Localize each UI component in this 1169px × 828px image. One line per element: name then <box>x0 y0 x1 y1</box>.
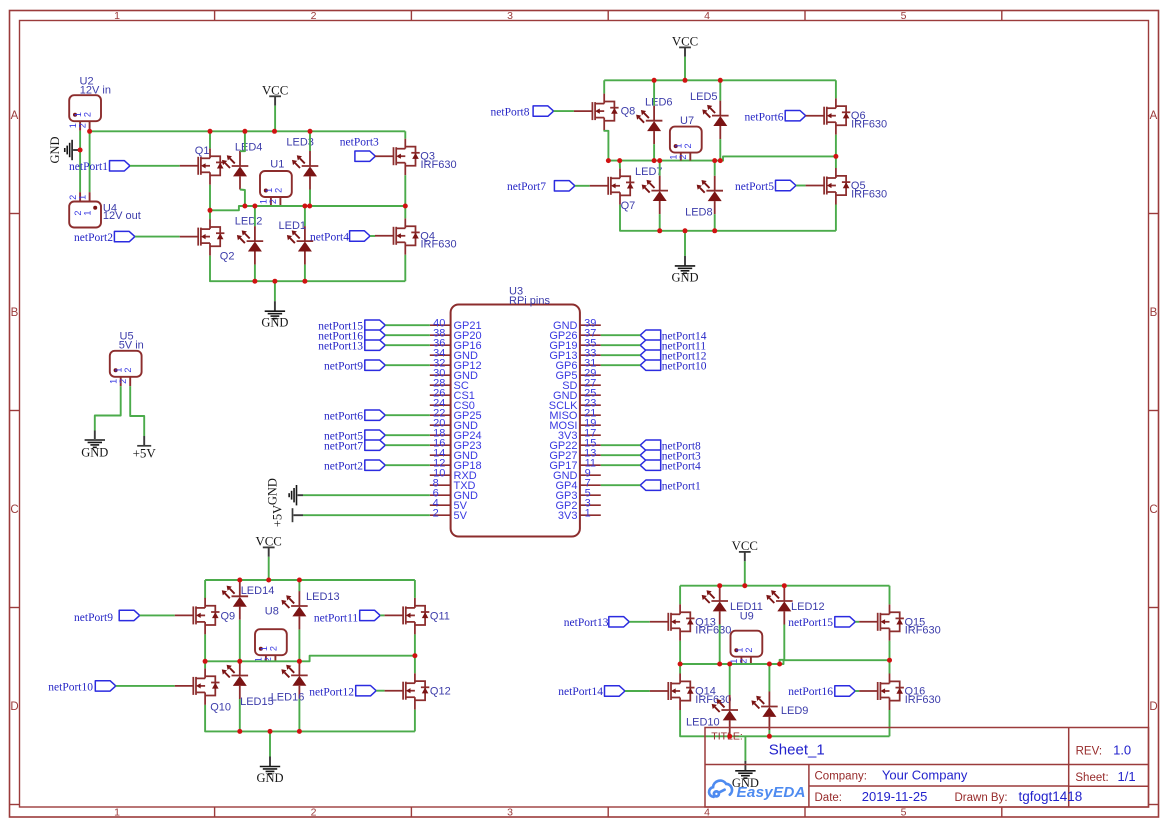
svg-text:LED10: LED10 <box>686 716 720 728</box>
pin 16 U3 <box>430 444 451 446</box>
wire top bus A <box>90 130 406 132</box>
wire LED3 top <box>309 131 311 151</box>
connector U1 body <box>260 171 292 197</box>
wire Q3 source down <box>404 175 406 206</box>
svg-text:C: C <box>1149 504 1157 516</box>
svg-text:2: 2 <box>739 659 749 664</box>
wire netPort8 to U3 <box>601 444 640 446</box>
pin 15 U3 <box>580 444 601 446</box>
power flag +5V left of U3 <box>294 514 304 516</box>
junction VCC tap A <box>272 129 277 134</box>
LED LED13 <box>291 591 308 630</box>
svg-text:C: C <box>10 504 18 516</box>
junction LED7 bottom <box>657 228 662 233</box>
svg-text:5V: 5V <box>454 510 468 522</box>
svg-text:LED9: LED9 <box>781 705 809 717</box>
svg-text:netPort13: netPort13 <box>318 340 363 352</box>
svg-text:IRF630: IRF630 <box>905 694 941 706</box>
wire netPort11 to Q11 gate <box>380 614 384 616</box>
ground cluster D <box>269 731 271 756</box>
wire netPort10 to U3 <box>601 364 640 366</box>
svg-text:netPort4: netPort4 <box>662 460 701 472</box>
junction bus start <box>87 129 92 134</box>
LED LED1 <box>297 226 314 265</box>
pin 25 U3 <box>580 394 601 396</box>
pin 3 U3 <box>580 504 601 506</box>
pin 22 U3 <box>430 414 451 416</box>
junction LED12 bottom <box>777 662 782 667</box>
svg-text:netPort6: netPort6 <box>745 112 784 124</box>
svg-text:1: 1 <box>77 195 87 200</box>
wire netPort8 to Q8 gate <box>554 110 574 112</box>
svg-text:2: 2 <box>118 379 128 384</box>
svg-text:U9: U9 <box>740 610 754 622</box>
wire netPort5 to Q5 gate <box>796 185 806 187</box>
wire LED7 top lead <box>659 161 661 176</box>
wire middle bus A <box>210 206 405 210</box>
wire LED4 top jog <box>240 131 245 151</box>
transistor Q5 <box>806 168 851 205</box>
svg-text:netPort4: netPort4 <box>310 231 349 243</box>
junction LED16 bottom <box>297 729 302 734</box>
svg-text:netPort12: netPort12 <box>309 686 354 698</box>
net flag netPort14 <box>640 330 661 340</box>
junction Q1 drain at bus <box>208 129 213 134</box>
pin 31 U3 <box>580 364 601 366</box>
svg-text:GND: GND <box>671 271 698 285</box>
svg-text:2019-11-25: 2019-11-25 <box>862 789 928 804</box>
wire Q15 source down <box>889 641 891 660</box>
transistor Q9 <box>175 598 220 635</box>
transistor Q6 <box>806 98 851 135</box>
junction LED5 top <box>718 78 723 83</box>
svg-text:D: D <box>1149 701 1157 713</box>
wire Q16 drain up <box>889 660 891 673</box>
pin 5 U3 <box>580 494 601 496</box>
svg-text:IRF630: IRF630 <box>695 694 731 706</box>
net flag netPort3 <box>355 151 376 161</box>
LED LED10 <box>721 695 738 734</box>
LED LED11 <box>711 586 728 625</box>
wire Q12 drain up <box>414 656 416 674</box>
svg-text:Q7: Q7 <box>621 200 636 212</box>
junction LED4 top <box>242 129 247 134</box>
svg-text:Q12: Q12 <box>430 685 451 697</box>
svg-text:Date:: Date: <box>815 792 843 804</box>
svg-text:netPort10: netPort10 <box>48 681 93 693</box>
wire LED2 top lead <box>254 206 256 226</box>
junction Q6 source node <box>833 154 838 159</box>
pin 19 U3 <box>580 424 601 426</box>
svg-text:Q10: Q10 <box>210 701 231 713</box>
wire netPort3 to U3 <box>601 454 640 456</box>
IC U3 RPi pins <box>451 305 580 537</box>
junction LED6 top <box>652 78 657 83</box>
wire netPort11 to U3 <box>601 344 640 346</box>
net flag netPort5 <box>776 180 797 190</box>
wire Q11 source down <box>414 634 416 655</box>
svg-text:1: 1 <box>669 155 679 160</box>
connector U2 body <box>69 95 101 121</box>
pin 35 U3 <box>580 344 601 346</box>
pin 20 U3 <box>430 424 451 426</box>
net flag netPort10 <box>95 681 116 691</box>
pin 28 U3 <box>430 384 451 386</box>
junction VCC tap B <box>683 78 688 83</box>
junction LED12 top <box>782 583 787 588</box>
svg-text:GND: GND <box>261 316 288 330</box>
pin 17 U3 <box>580 434 601 436</box>
wire netPort9 to Q9 gate <box>140 614 175 616</box>
svg-text:netPort13: netPort13 <box>564 617 609 629</box>
ground cluster E <box>744 736 746 761</box>
net flag netPort6 <box>365 410 386 420</box>
svg-text:1: 1 <box>734 647 744 652</box>
wire netPort15 to U3 <box>385 324 430 326</box>
junction LED8 top <box>712 158 717 163</box>
svg-text:netPort3: netPort3 <box>340 137 379 149</box>
net flag netPort11 <box>360 610 381 620</box>
wire U2 pin2 to U4 pin1 <box>89 131 91 193</box>
net flag netPort16 <box>365 330 386 340</box>
wire Q3 drain drop <box>404 131 406 138</box>
wire top bus B <box>604 79 836 81</box>
wire LED9 bottom lead <box>768 730 770 736</box>
wire Q1 source down <box>209 185 211 211</box>
svg-text:3: 3 <box>507 10 513 22</box>
svg-text:1: 1 <box>68 123 78 128</box>
junction Q11 source node <box>412 653 417 658</box>
svg-text:LED14: LED14 <box>241 585 275 597</box>
svg-text:Drawn By:: Drawn By: <box>955 792 1008 804</box>
wire netPort10 to Q10 gate <box>116 685 175 687</box>
net flag netPort7 <box>365 440 386 450</box>
svg-text:Q8: Q8 <box>621 105 636 117</box>
wire netPort16 to Q16 gate <box>855 690 859 692</box>
svg-text:Q9: Q9 <box>221 611 236 623</box>
wire netPort12 to U3 <box>601 354 640 356</box>
svg-text:1: 1 <box>73 112 83 117</box>
junction LED9 top <box>767 662 772 667</box>
LED LED14 <box>232 581 249 620</box>
svg-text:Q2: Q2 <box>220 251 235 263</box>
svg-text:5: 5 <box>901 807 907 819</box>
transistor Q1 <box>180 148 225 185</box>
svg-text:netPort5: netPort5 <box>735 181 774 193</box>
wire LED14 top lead <box>239 580 241 581</box>
net flag netPort15 <box>365 320 386 330</box>
wire LED10 top lead <box>729 664 731 695</box>
wire LED2 bottom lead <box>254 265 256 282</box>
wire bottom bus E <box>680 710 889 736</box>
net flag netPort4 <box>350 231 371 241</box>
LED LED4 <box>232 151 249 190</box>
transistor Q8 <box>574 94 619 131</box>
wire netPort6 to U3 <box>385 414 430 416</box>
net flag netPort9 <box>119 610 140 620</box>
LED LED15 <box>232 661 249 700</box>
svg-text:2: 2 <box>683 143 693 148</box>
ground cluster B <box>684 231 686 256</box>
svg-text:LED12: LED12 <box>791 601 825 613</box>
svg-text:netPort9: netPort9 <box>74 612 113 624</box>
net flag netPort1 <box>640 480 661 490</box>
wire U2 pin1 to U4 pin2 <box>79 131 81 193</box>
wire Q9 source down <box>204 634 206 661</box>
connector U7 body <box>670 127 702 153</box>
wire netPort16 to U3 <box>385 334 430 336</box>
svg-text:GND: GND <box>81 446 108 460</box>
wire Q9 drain drop <box>204 580 206 598</box>
wire middle bus B <box>608 156 836 160</box>
svg-text:Sheet:: Sheet: <box>1075 772 1108 784</box>
junction LED13 top <box>297 578 302 583</box>
wire netPort13 to Q13 gate <box>629 621 650 623</box>
svg-text:IRF630: IRF630 <box>851 119 887 131</box>
junction LED4 bottom <box>242 204 247 209</box>
svg-text:IRF630: IRF630 <box>905 625 941 637</box>
junction LED15 bottom <box>237 729 242 734</box>
junction LED3 top <box>308 129 313 134</box>
wire LED11 bottom lead <box>719 625 721 665</box>
junction LED11 top <box>717 583 722 588</box>
svg-text:1/1: 1/1 <box>1118 769 1136 784</box>
wire netPort5 to U3 <box>385 434 430 436</box>
svg-text:netPort15: netPort15 <box>788 617 833 629</box>
wire Q6 source down <box>835 135 837 157</box>
pin 27 U3 <box>580 384 601 386</box>
wire Q1 drain to bus <box>209 131 211 138</box>
LED LED12 <box>776 586 793 625</box>
svg-text:LED5: LED5 <box>690 91 718 103</box>
wire netPort9 to U3 <box>385 364 430 366</box>
EasyEDA logo <box>709 781 805 801</box>
wire LED14 bottom lead <box>239 620 241 661</box>
net flag netPort2 <box>114 231 134 241</box>
svg-text:1: 1 <box>114 807 120 819</box>
svg-text:netPort8: netPort8 <box>491 107 530 119</box>
connector U9 body <box>731 631 763 657</box>
svg-text:3V3: 3V3 <box>558 510 578 522</box>
transistor Q7 <box>590 168 635 205</box>
svg-text:RPi pins: RPi pins <box>509 295 550 307</box>
wire LED4 bottom jog <box>240 190 245 207</box>
svg-text:1: 1 <box>83 210 93 215</box>
wire Q4 source down <box>404 255 406 281</box>
junction Q1 source node <box>208 208 213 213</box>
svg-text:1: 1 <box>259 646 269 651</box>
pin 34 U3 <box>430 354 451 356</box>
wire netPort14 to U3 <box>601 334 640 336</box>
ground left of U3 <box>298 494 304 496</box>
transistor Q2 <box>180 219 225 256</box>
pin 9 U3 <box>580 474 601 476</box>
svg-text:2: 2 <box>68 195 78 200</box>
pin 40 U3 <box>430 324 451 326</box>
wire netPort2 to Q2 gate <box>135 236 180 238</box>
wire Q4 drain up <box>404 206 406 218</box>
wire LED12 bottom jog <box>780 625 785 665</box>
wire netPort7 to Q7 gate <box>575 185 590 187</box>
pin 10 U3 <box>430 474 451 476</box>
svg-text:netPort1: netPort1 <box>662 480 701 492</box>
svg-text:A: A <box>1150 110 1158 122</box>
wire netPort4 to Q4 gate <box>370 235 375 237</box>
wire LED13 top lead <box>298 580 300 591</box>
svg-text:EasyEDA: EasyEDA <box>737 784 806 801</box>
wire LED1 bottom lead <box>304 265 306 282</box>
junction LED10 top <box>727 662 732 667</box>
svg-text:Q1: Q1 <box>195 145 210 157</box>
wire bottom bus D <box>205 705 415 732</box>
svg-text:12V out: 12V out <box>103 210 141 222</box>
svg-text:1: 1 <box>114 368 124 373</box>
wire netPort7 to U3 <box>385 444 430 446</box>
LED LED3 <box>302 151 319 190</box>
wire netPort14 to Q14 gate <box>625 690 650 692</box>
pin 33 U3 <box>580 354 601 356</box>
junction LED10 bottom <box>727 734 732 739</box>
wire Q8 source jog down <box>604 130 608 161</box>
wire Q12 source down <box>414 710 416 732</box>
net flag netPort3 <box>640 450 661 460</box>
connector U4 body <box>69 202 101 228</box>
junction LED5 bottom <box>718 158 723 163</box>
net flag netPort12 <box>356 686 377 696</box>
transistor Q15 <box>859 604 904 641</box>
net flag netPort13 <box>365 340 386 350</box>
net flag netPort13 <box>609 617 630 627</box>
svg-text:U8: U8 <box>265 606 279 618</box>
LED LED8 <box>706 176 723 215</box>
svg-text:VCC: VCC <box>672 35 698 49</box>
net flag netPort4 <box>640 460 661 470</box>
pin 4 U3 <box>430 504 451 506</box>
LED LED2 <box>247 226 264 265</box>
svg-text:LED1: LED1 <box>279 220 307 232</box>
pin 14 U3 <box>430 454 451 456</box>
wire top bus E <box>680 585 889 587</box>
svg-text:IRF630: IRF630 <box>421 159 457 171</box>
svg-text:GND: GND <box>265 478 279 505</box>
wire Q16 source down <box>889 710 891 736</box>
junction LED8 bottom <box>712 228 717 233</box>
svg-text:VCC: VCC <box>732 539 758 553</box>
wire LED10 bottom lead <box>729 734 731 737</box>
wire GND rail to pin6 <box>303 494 430 496</box>
svg-text:netPort7: netPort7 <box>507 181 546 193</box>
svg-text:REV:: REV: <box>1076 745 1102 757</box>
pin 12 U3 <box>430 464 451 466</box>
junction LED2 top <box>252 204 257 209</box>
net flag netPort7 <box>554 181 575 191</box>
svg-text:4: 4 <box>704 807 710 819</box>
svg-text:2: 2 <box>311 807 317 819</box>
svg-text:2: 2 <box>744 647 754 652</box>
svg-text:U7: U7 <box>680 115 694 127</box>
svg-text:GND: GND <box>48 136 62 163</box>
net flag netPort5 <box>365 430 386 440</box>
pin 26 U3 <box>430 394 451 396</box>
transistor Q4 <box>375 218 420 255</box>
svg-text:2: 2 <box>83 112 93 117</box>
svg-text:LED6: LED6 <box>645 97 673 109</box>
svg-text:netPort1: netPort1 <box>69 161 108 173</box>
svg-text:B: B <box>11 307 19 319</box>
wire LED16 bottom lead <box>298 699 300 732</box>
pin 1 U3 <box>580 514 601 516</box>
junction Q7 drain node <box>617 158 622 163</box>
pin 11 U3 <box>580 464 601 466</box>
ground cluster A <box>274 281 276 301</box>
junction GND tap B <box>683 228 688 233</box>
svg-text:Your Company: Your Company <box>882 767 968 782</box>
pin 24 U3 <box>430 404 451 406</box>
wire LED9 top lead <box>768 664 770 692</box>
wire U5 pin1 to GND <box>95 386 121 430</box>
svg-text:B: B <box>1150 307 1158 319</box>
svg-text:U1: U1 <box>270 159 284 171</box>
junction LED3 bottom <box>307 204 312 209</box>
net flag netPort10 <box>640 360 661 370</box>
wire netPort13 to U3 <box>385 344 430 346</box>
svg-text:1: 1 <box>109 379 119 384</box>
svg-text:netPort7: netPort7 <box>324 440 363 452</box>
svg-text:2: 2 <box>268 199 278 204</box>
svg-text:5V in: 5V in <box>119 340 144 352</box>
pin 7 U3 <box>580 484 601 486</box>
pin 37 U3 <box>580 334 601 336</box>
wire Q13 source down <box>679 641 681 664</box>
net flag netPort9 <box>365 360 386 370</box>
junction LED7 top <box>657 158 662 163</box>
svg-text:LED15: LED15 <box>240 696 274 708</box>
wire bottom bus B <box>620 205 836 231</box>
net flag netPort2 <box>365 460 386 470</box>
svg-text:netPort9: netPort9 <box>324 360 363 372</box>
svg-text:netPort2: netPort2 <box>74 232 113 244</box>
wire LED6 bottom lead <box>653 144 655 160</box>
net flag netPort8 <box>640 440 661 450</box>
wire middle bus E <box>680 660 889 664</box>
wire LED8 top lead <box>714 161 716 176</box>
svg-text:2: 2 <box>268 646 278 651</box>
pin 36 U3 <box>430 344 451 346</box>
junction GND tap A <box>272 279 277 284</box>
pin 8 U3 <box>430 484 451 486</box>
net flag netPort12 <box>640 350 661 360</box>
junction GND tap <box>78 148 83 153</box>
svg-text:netPort6: netPort6 <box>324 410 363 422</box>
pin 38 U3 <box>430 334 451 336</box>
transistor Q14 <box>650 674 695 711</box>
wire Q14 drain up <box>679 664 681 674</box>
wire LED3 bottom <box>309 190 311 207</box>
wire Q5 drain up <box>835 156 837 168</box>
svg-text:4: 4 <box>704 10 710 22</box>
pin 29 U3 <box>580 374 601 376</box>
svg-text:IRF630: IRF630 <box>695 625 731 637</box>
pin 13 U3 <box>580 454 601 456</box>
svg-text:Sheet_1: Sheet_1 <box>769 742 825 759</box>
svg-text:VCC: VCC <box>256 535 282 549</box>
LED LED7 <box>651 176 668 215</box>
wire Q8 drain drop <box>603 80 605 93</box>
svg-text:IRF630: IRF630 <box>851 188 887 200</box>
wire LED13 bottom lead <box>298 630 300 662</box>
svg-text:TITLE:: TITLE: <box>711 730 743 742</box>
wire netPort2 to U3 <box>385 464 430 466</box>
